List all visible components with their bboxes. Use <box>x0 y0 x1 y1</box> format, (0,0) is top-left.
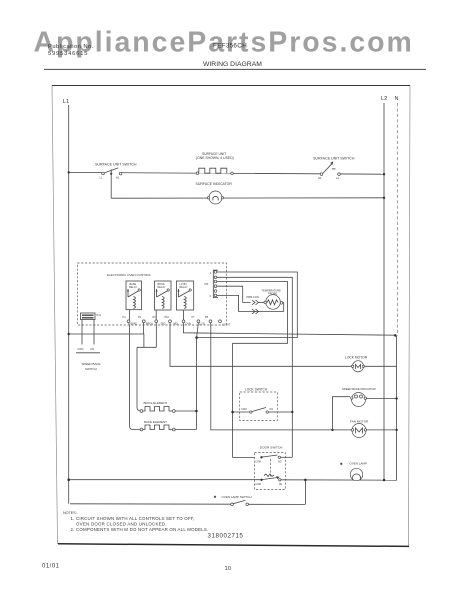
svg-text:2. COMPONENTS WITH M DO NOT: 2. COMPONENTS WITH M DO NOT APPEAR ON AL… <box>71 527 209 532</box>
svg-text:✱: ✱ <box>214 495 217 499</box>
wire P2 stub <box>142 323 144 334</box>
svg-text:N: N <box>395 96 399 102</box>
wire C t3 loop <box>217 282 288 458</box>
surface unit switch right <box>318 161 340 180</box>
wire indicator to N <box>366 398 397 400</box>
wire broil feed <box>137 347 140 411</box>
wire probe leads <box>259 301 265 303</box>
svg-text:BAKE: BAKE <box>131 323 138 326</box>
electronic oven control box <box>77 263 226 325</box>
svg-text:NOTES:: NOTES: <box>63 511 77 515</box>
wire bottom rail y479.7 <box>69 479 261 481</box>
svg-text:BROIL: BROIL <box>146 323 154 326</box>
wire P7 vertical <box>196 323 198 430</box>
svg-text:P10: P10 <box>165 316 170 319</box>
wire L1 vertical <box>68 105 70 504</box>
wire indicator branch <box>333 397 351 430</box>
wire P11 leads down <box>81 320 83 345</box>
svg-text:01/01: 01/01 <box>42 564 60 570</box>
svg-text:OVEN DOOR CLOSED AND UNLOCKED.: OVEN DOOR CLOSED AND UNLOCKED. <box>76 521 167 526</box>
svg-text:COM: COM <box>255 460 261 463</box>
junction L2 indicator rail <box>383 197 385 199</box>
svg-text:OVEN LAMP: OVEN LAMP <box>350 462 368 466</box>
svg-text:COM: COM <box>78 348 84 351</box>
svg-text:MDL: MDL <box>174 323 180 326</box>
junction wire B <box>195 336 198 339</box>
svg-text:COM: COM <box>241 408 247 411</box>
door switch pole 2 <box>255 476 282 486</box>
wire probe return <box>282 303 285 312</box>
svg-text:1. CIRCUIT SHOWN WITH ALL CONT: 1. CIRCUIT SHOWN WITH ALL CONTROLS SET T… <box>71 516 195 521</box>
door switch box <box>255 453 286 490</box>
svg-text:PRB CON: PRB CON <box>247 295 259 299</box>
lock switch box <box>240 392 278 421</box>
svg-text:5995346615: 5995346615 <box>48 51 88 57</box>
wire lock motor to N <box>364 365 397 367</box>
fan motor <box>350 420 369 438</box>
svg-text:L1 IN: L1 IN <box>199 323 205 326</box>
svg-text:BROIL ELEMENT: BROIL ELEMENT <box>144 401 168 405</box>
schematic border frame <box>52 86 410 547</box>
junction bottom rail L2 <box>383 479 386 482</box>
svg-text:WIRING DIAGRAM: WIRING DIAGRAM <box>203 61 262 68</box>
wire L2 vertical <box>383 103 385 480</box>
svg-text:Publication No.: Publication No. <box>48 44 94 50</box>
wire jog node <box>137 346 156 348</box>
svg-text:FAN MOTOR: FAN MOTOR <box>350 420 369 424</box>
wire t6 to probe lower <box>217 295 284 311</box>
junction bottom rail L1 <box>67 478 70 481</box>
surface unit element <box>196 166 234 174</box>
surface indicator lamp <box>207 191 223 204</box>
speed bake switch <box>76 348 101 371</box>
svg-text:L2: L2 <box>381 96 387 102</box>
relay K1 bake <box>126 281 142 310</box>
svg-text:OVEN LAMP SWITCH: OVEN LAMP SWITCH <box>222 495 252 499</box>
svg-text:RELAY: RELAY <box>129 286 137 289</box>
svg-text:H1: H1 <box>116 176 120 180</box>
svg-text:H2: H2 <box>318 176 322 180</box>
wire fan feed P8 <box>211 323 353 430</box>
svg-text:ELECTRONIC OVEN CONTROL: ELECTRONIC OVEN CONTROL <box>107 273 152 277</box>
junction indicator branch <box>331 429 333 431</box>
svg-text:(ONE SHOWN, 4 USED): (ONE SHOWN, 4 USED) <box>196 156 234 160</box>
junction lamp drop <box>304 479 307 482</box>
junction broil right <box>195 410 198 413</box>
P11 connector block <box>81 313 102 320</box>
broil element <box>140 401 175 413</box>
svg-text:RELAY: RELAY <box>158 286 166 289</box>
svg-text:L1: L1 <box>63 99 69 105</box>
connector P6 pins <box>213 270 218 297</box>
svg-text:10: 10 <box>225 566 231 572</box>
junction switch drop <box>110 173 112 175</box>
wire t5 to probe connector <box>217 286 251 302</box>
wire lamp switch drop <box>304 480 306 505</box>
svg-text:SURFACE UNIT SWITCH: SURFACE UNIT SWITCH <box>313 157 355 161</box>
wire bake vertical P4 <box>129 323 140 430</box>
wire broil right link <box>175 410 196 412</box>
wire relay stubs <box>130 310 184 320</box>
svg-text:NO: NO <box>270 408 274 411</box>
wire top rail y172 <box>69 172 384 174</box>
oven lamp switch <box>214 495 252 506</box>
wire A P-OVN to N <box>184 323 396 335</box>
svg-text:SPD: SPD <box>161 323 166 326</box>
svg-text:FEF356CH: FEF356CH <box>213 43 247 50</box>
junction L2 top rail <box>383 173 385 175</box>
svg-text:P6: P6 <box>205 282 209 286</box>
door switch link <box>270 459 272 478</box>
wire fan to N <box>366 429 397 431</box>
svg-text:LOCK SWITCH: LOCK SWITCH <box>245 387 268 391</box>
door switch pole 1 <box>255 455 292 463</box>
svg-text:✱: ✱ <box>340 462 343 466</box>
temperature probe <box>262 288 283 309</box>
wire B L1-IN branch <box>197 272 298 338</box>
wire N vertical dashed upper <box>396 103 398 336</box>
junction L1 top rail <box>68 171 70 173</box>
svg-text:NO: NO <box>91 348 95 351</box>
junction indicator N <box>395 397 397 399</box>
junction wire A at N <box>394 334 397 337</box>
svg-text:318002715: 318002715 <box>208 532 244 539</box>
header rule <box>44 68 426 70</box>
lock motor <box>345 355 368 372</box>
lock switch <box>233 408 293 414</box>
wire L1 feed y334 <box>69 334 144 347</box>
wire oven lamp switch rail <box>70 503 231 505</box>
wire indicator rail y198 <box>111 197 384 199</box>
oven lamp <box>340 462 367 481</box>
svg-text:RELAY: RELAY <box>180 286 188 289</box>
wire lock motor feed y366.3 <box>170 323 352 367</box>
wire N vertical lower <box>396 336 398 480</box>
EOC terminal labels <box>123 316 231 326</box>
surface unit switch left <box>100 168 122 180</box>
junction fan N <box>395 429 397 431</box>
junction L1 y333.5 <box>68 333 70 335</box>
svg-text:COM: COM <box>255 483 261 486</box>
svg-text:NC: NC <box>279 483 283 486</box>
junction lock NO <box>291 411 293 413</box>
relay K2 broil <box>155 281 171 310</box>
svg-text:SPEED BAKE: SPEED BAKE <box>82 362 101 366</box>
EOC terminal row pins <box>127 320 221 323</box>
wire t2 to lock/door NO <box>217 277 292 457</box>
speed bake indicator <box>342 387 376 406</box>
svg-text:SPEED BAKE INDICATOR: SPEED BAKE INDICATOR <box>342 387 376 391</box>
svg-text:NO: NO <box>278 460 282 463</box>
bake element <box>140 420 175 431</box>
svg-text:SURFACE INDICATOR: SURFACE INDICATOR <box>196 182 233 186</box>
svg-text:LOCK MOTOR: LOCK MOTOR <box>345 355 368 359</box>
svg-text:OVN: OVN <box>186 323 191 326</box>
svg-text:DOOR SWITCH: DOOR SWITCH <box>260 446 282 450</box>
notes <box>63 511 208 532</box>
svg-text:BAKE ELEMENT: BAKE ELEMENT <box>144 420 167 424</box>
wire bake right link <box>175 429 196 431</box>
svg-text:SURFACE UNIT SWITCH: SURFACE UNIT SWITCH <box>95 162 137 166</box>
svg-text:P11: P11 <box>97 313 102 317</box>
wire switch drop to indicator rail <box>110 169 112 198</box>
wire P3 stub <box>155 323 157 348</box>
relay K3 lo bk <box>176 281 193 310</box>
svg-text:SWITCH: SWITCH <box>85 367 97 371</box>
svg-text:L1 OUT: L1 OUT <box>222 323 231 326</box>
junction lock COM <box>231 411 234 414</box>
